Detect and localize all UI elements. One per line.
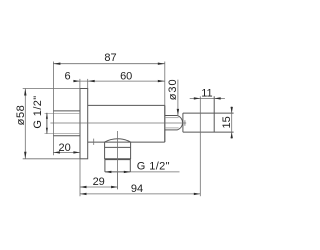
- svg-text:ø30: ø30: [167, 78, 179, 100]
- svg-text:87: 87: [104, 52, 116, 64]
- svg-text:6: 6: [65, 71, 71, 83]
- svg-text:G 1/2": G 1/2": [137, 161, 170, 173]
- svg-text:G 1/2": G 1/2": [32, 95, 44, 128]
- svg-text:20: 20: [58, 142, 70, 154]
- svg-text:ø58: ø58: [15, 105, 27, 126]
- svg-text:11: 11: [201, 88, 212, 100]
- svg-text:60: 60: [120, 70, 132, 82]
- svg-text:29: 29: [93, 176, 105, 188]
- svg-text:94: 94: [131, 183, 143, 195]
- svg-text:15: 15: [221, 116, 233, 128]
